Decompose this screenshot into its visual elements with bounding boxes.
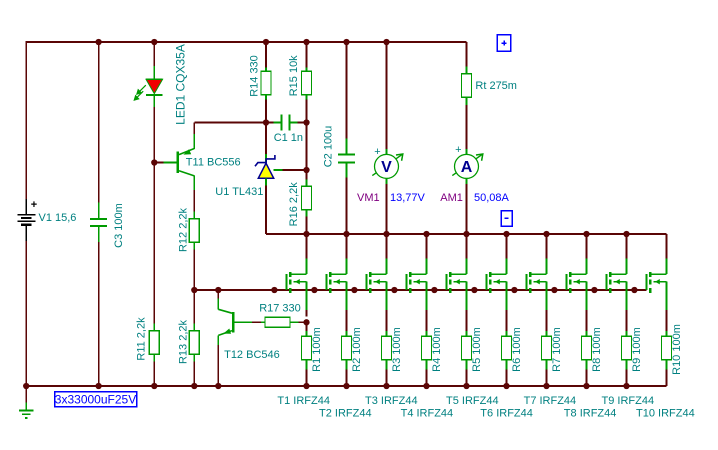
resistor R5 100m bbox=[462, 336, 472, 360]
resistor R14 330 bbox=[261, 71, 271, 95]
svg-text:+: + bbox=[31, 199, 37, 211]
label R12 2,2k bbox=[178, 207, 190, 252]
wire gate drive bus bbox=[194, 289, 646, 291]
node minus bus / T6 drain bbox=[503, 231, 509, 237]
wire T5 drain bbox=[466, 234, 468, 274]
wire R15 bottom bbox=[306, 95, 308, 123]
node gate bus dot 5 bbox=[431, 287, 437, 293]
wire R1 bottom bbox=[306, 361, 308, 387]
svg-text:R9 100m: R9 100m bbox=[631, 327, 643, 372]
node bottom rail / R8 bbox=[583, 383, 589, 389]
svg-text:V: V bbox=[381, 159, 392, 176]
wire U1 reference bbox=[274, 169, 307, 171]
transistor T4 IRFZ44 (MOSFET) bbox=[407, 272, 427, 293]
wire node mid rail (emitter to R14/C1) bbox=[194, 122, 266, 124]
node top rail / R14 bbox=[263, 39, 269, 45]
svg-text:R5 100m: R5 100m bbox=[471, 327, 483, 372]
wire AM1 bottom bbox=[466, 178, 468, 234]
wire T1 source node to R1 bbox=[306, 322, 308, 335]
node top rail / C3 bbox=[95, 39, 101, 45]
wire R16 bottom bbox=[306, 211, 308, 234]
svg-text:+: + bbox=[374, 146, 380, 158]
terminal - (negative output) bbox=[501, 211, 512, 227]
svg-text:R2 100m: R2 100m bbox=[351, 327, 363, 372]
svg-text:R6 100m: R6 100m bbox=[511, 327, 523, 372]
wire T12 base to R17 bbox=[235, 321, 266, 323]
resistor R11 2,2k bbox=[149, 331, 159, 355]
label T6 IRFZ44 bbox=[480, 408, 533, 420]
label 13,77V bbox=[390, 192, 426, 204]
label R11 2,2k bbox=[136, 317, 148, 361]
node bottom rail / R13 bbox=[191, 383, 197, 389]
wire T2 source bbox=[346, 282, 348, 336]
svg-text:T9 IRFZ44: T9 IRFZ44 bbox=[602, 395, 655, 407]
svg-text:R13 2,2k: R13 2,2k bbox=[178, 319, 190, 364]
wire C2 top bbox=[346, 42, 348, 155]
node minus bus / T7 drain bbox=[543, 231, 549, 237]
node gate bus dot 9 bbox=[591, 287, 597, 293]
label U1 TL431 bbox=[215, 186, 263, 198]
wire C3 bottom bbox=[98, 226, 100, 386]
svg-text:50,08A: 50,08A bbox=[474, 192, 510, 204]
node bottom rail / C3 bbox=[95, 383, 101, 389]
wire T3 drain bbox=[386, 234, 388, 274]
node minus bus / T9 drain bbox=[623, 231, 629, 237]
wire T1 source bbox=[306, 282, 308, 317]
wire R15 top bbox=[306, 42, 308, 72]
wire R5 bottom bbox=[466, 361, 468, 387]
capacitor C3 100m bbox=[90, 219, 107, 226]
svg-text:T4 IRFZ44: T4 IRFZ44 bbox=[401, 408, 454, 420]
wire R17 to T1 source node bbox=[290, 321, 307, 323]
node bottom rail / R10 bbox=[0, 0, 1, 1]
label R16 2,2k bbox=[288, 182, 300, 227]
label T12 BC546 bbox=[224, 349, 280, 361]
node bottom rail / R4 bbox=[423, 383, 429, 389]
wire T10 drain bbox=[666, 234, 668, 274]
wire T4 drain bbox=[426, 234, 428, 274]
node minus bus / T8 drain bbox=[583, 231, 589, 237]
node bottom rail / R6 bbox=[503, 383, 509, 389]
svg-text:T3 IRFZ44: T3 IRFZ44 bbox=[365, 395, 418, 407]
svg-text:T11 BC556: T11 BC556 bbox=[186, 157, 241, 169]
svg-text:3x33000uF25V: 3x33000uF25V bbox=[55, 392, 136, 406]
transistor T2 IRFZ44 (MOSFET) bbox=[327, 272, 347, 293]
label T3 IRFZ44 bbox=[365, 395, 418, 407]
label T8 IRFZ44 bbox=[564, 408, 617, 420]
svg-text:LED1 CQX35A: LED1 CQX35A bbox=[174, 44, 188, 125]
svg-text:R1 100m: R1 100m bbox=[311, 327, 323, 372]
wire LED anode bbox=[153, 42, 155, 79]
wire T12 emitter down bbox=[217, 335, 219, 386]
wire R14 top bbox=[265, 42, 267, 72]
wire R11 top bbox=[153, 163, 155, 331]
wire C3 top bbox=[98, 42, 100, 219]
terminal + (positive output) bbox=[497, 35, 511, 52]
transistor T10 IRFZ44 (MOSFET) bbox=[647, 272, 667, 293]
svg-text:R14 330: R14 330 bbox=[248, 55, 260, 97]
svg-text:R7 100m: R7 100m bbox=[551, 327, 563, 372]
svg-text:T10 IRFZ44: T10 IRFZ44 bbox=[636, 408, 695, 420]
node mid rail / R14 / C1-left / U1 bbox=[263, 119, 269, 125]
svg-text:C3 100m: C3 100m bbox=[113, 203, 125, 248]
wire T9 source bbox=[626, 282, 628, 336]
label R5 100m bbox=[471, 327, 483, 372]
node mid rail / C1-right / R15 bbox=[303, 119, 309, 125]
resistor R1 100m bbox=[302, 336, 312, 360]
label T2 IRFZ44 bbox=[319, 408, 372, 420]
transistor T8 IRFZ44 (MOSFET) bbox=[567, 272, 587, 293]
wire T10 source bbox=[666, 282, 668, 336]
node R17 / T1 source / R1 bbox=[303, 319, 309, 325]
label T5 IRFZ44 bbox=[446, 395, 499, 407]
wire minus bus (drain rail) bbox=[266, 233, 667, 235]
svg-text:R12 2,2k: R12 2,2k bbox=[178, 207, 190, 252]
label 50,08A bbox=[474, 192, 510, 204]
capacitor C1 1n bbox=[282, 115, 290, 131]
node gate bus / R12-R13 bbox=[191, 287, 197, 293]
wire R13 top bbox=[193, 290, 195, 330]
svg-text:R16 2,2k: R16 2,2k bbox=[288, 182, 300, 227]
node gate bus dot 8 bbox=[551, 287, 557, 293]
wire C1-right down to ref node bbox=[306, 123, 308, 171]
svg-text:U1 TL431: U1 TL431 bbox=[215, 186, 263, 198]
resistor R6 100m bbox=[502, 336, 512, 360]
svg-text:+: + bbox=[455, 144, 461, 156]
wire R6 bottom bbox=[506, 361, 508, 387]
wire R13 bottom bbox=[193, 355, 195, 386]
node bottom rail / battery bbox=[23, 383, 29, 389]
wire T11 base bbox=[154, 162, 177, 164]
node gate bus dot 3 bbox=[351, 287, 357, 293]
wire VM1 top bbox=[386, 42, 388, 154]
LED LED1 CQX35A bbox=[134, 79, 162, 100]
wire T12 collector bbox=[217, 290, 219, 309]
label T10 IRFZ44 bbox=[636, 408, 695, 420]
svg-text:R10 100m: R10 100m bbox=[671, 324, 683, 375]
svg-text:R3 100m: R3 100m bbox=[391, 327, 403, 372]
label Rt 275m bbox=[475, 80, 517, 92]
transistor T7 IRFZ44 (MOSFET) bbox=[527, 272, 547, 293]
capacitor C2 100u bbox=[338, 155, 355, 163]
node bottom rail / R9 bbox=[623, 383, 629, 389]
label LED1 CQX35A bbox=[174, 44, 188, 125]
node bottom rail / R5 bbox=[463, 383, 469, 389]
node minus bus / T4 drain bbox=[423, 231, 429, 237]
label T9 IRFZ44 bbox=[602, 395, 655, 407]
wire R3 bottom bbox=[386, 361, 388, 387]
resistor R4 100m bbox=[422, 336, 432, 360]
battery V1 15,6 bbox=[18, 199, 38, 241]
wire T7 drain bbox=[546, 234, 548, 274]
transistor T11 BC556 bbox=[178, 149, 195, 176]
node LED/R11/T11-base junction bbox=[151, 159, 157, 165]
node bottom rail / T12 emitter bbox=[215, 383, 221, 389]
wire T3 source bbox=[386, 282, 388, 336]
wire top rail to Rt bbox=[466, 42, 468, 73]
label C1 1n bbox=[274, 132, 303, 144]
node bottom rail / R7 bbox=[543, 383, 549, 389]
svg-text:C2 100u: C2 100u bbox=[323, 126, 335, 168]
svg-text:R17 330: R17 330 bbox=[259, 303, 301, 315]
wire R2 bottom bbox=[346, 361, 348, 387]
node gate bus dot 1 bbox=[271, 287, 277, 293]
wire T11 emitter up bbox=[193, 123, 195, 150]
transistor T6 IRFZ44 (MOSFET) bbox=[487, 272, 507, 293]
svg-text:T8 IRFZ44: T8 IRFZ44 bbox=[564, 408, 617, 420]
resistor R16 2,2k bbox=[302, 186, 312, 210]
node bottom rail / R1 bbox=[303, 383, 309, 389]
svg-text:T12 BC546: T12 BC546 bbox=[224, 349, 280, 361]
wire T7 source bbox=[546, 282, 548, 336]
label R2 100m bbox=[351, 327, 363, 372]
wire R14 bottom bbox=[265, 95, 267, 123]
wire bottom ground rail bbox=[26, 385, 666, 387]
wire battery positive lead bbox=[25, 41, 27, 199]
svg-text:T6 IRFZ44: T6 IRFZ44 bbox=[480, 408, 533, 420]
transistor T1 IRFZ44 (MOSFET) bbox=[287, 272, 307, 293]
wire T8 drain bbox=[586, 234, 588, 274]
svg-text:AM1: AM1 bbox=[440, 192, 463, 204]
resistor R15 10k bbox=[302, 71, 312, 95]
label 3x33000uF25V (battery note) bbox=[55, 392, 137, 407]
node gate bus dot 6 bbox=[471, 287, 477, 293]
label R6 100m bbox=[511, 327, 523, 372]
label R8 100m bbox=[591, 327, 603, 372]
node minus bus / T5 drain bbox=[463, 231, 469, 237]
wire Rt to AM1 bbox=[466, 98, 468, 154]
resistor R8 100m bbox=[582, 336, 592, 360]
label T7 IRFZ44 bbox=[524, 395, 577, 407]
transistor T3 IRFZ44 (MOSFET) bbox=[367, 272, 387, 293]
svg-text:R11 2,2k: R11 2,2k bbox=[136, 317, 148, 361]
node bottom rail / R2 bbox=[343, 383, 349, 389]
ammeter AM1 bbox=[452, 144, 483, 179]
wire top positive rail bbox=[26, 41, 466, 43]
label AM1 bbox=[440, 192, 463, 204]
transistor T5 IRFZ44 (MOSFET) bbox=[447, 272, 467, 293]
resistor R9 100m bbox=[622, 336, 632, 360]
wire T5 source bbox=[466, 282, 468, 336]
wire T11 collector down bbox=[193, 176, 195, 218]
svg-text:VM1: VM1 bbox=[357, 192, 380, 204]
label T4 IRFZ44 bbox=[401, 408, 454, 420]
label R7 100m bbox=[551, 327, 563, 372]
node top rail / C2 bbox=[343, 39, 349, 45]
wire R10 bottom bbox=[666, 361, 668, 387]
wire T9 drain bbox=[626, 234, 628, 274]
node minus bus / T2 drain bbox=[343, 231, 349, 237]
wire T1 drain bbox=[306, 234, 308, 274]
label C2 100u bbox=[323, 126, 335, 168]
label R9 100m bbox=[631, 327, 643, 372]
wire LED cathode to node bbox=[153, 95, 155, 163]
node gate bus dot 2 bbox=[311, 287, 317, 293]
resistor R2 100m bbox=[342, 336, 352, 360]
node minus bus / T3 drain bbox=[383, 231, 389, 237]
node top rail / LED bbox=[151, 39, 157, 45]
node minus bus / T1 drain bbox=[303, 231, 309, 237]
label R17 330 bbox=[259, 303, 301, 315]
wire T2 drain bbox=[346, 234, 348, 274]
svg-text:13,77V: 13,77V bbox=[390, 192, 426, 204]
resistor R12 2,2k bbox=[189, 219, 199, 243]
node gate bus dot 7 bbox=[511, 287, 517, 293]
label R1 100m bbox=[311, 327, 323, 372]
resistor R7 100m bbox=[542, 336, 552, 360]
wire C2 bottom bbox=[346, 162, 348, 234]
svg-text:T2 IRFZ44: T2 IRFZ44 bbox=[319, 408, 372, 420]
voltmeter VM1 bbox=[372, 146, 403, 179]
node top rail / VM1 bbox=[383, 39, 389, 45]
label R4 100m bbox=[431, 327, 443, 372]
op-amp U1 TL431 shunt regulator bbox=[255, 155, 275, 178]
wire T6 source bbox=[506, 282, 508, 336]
wire C1 right lead bbox=[289, 122, 306, 124]
resistor R3 100m bbox=[382, 336, 392, 360]
transistor T9 IRFZ44 (MOSFET) bbox=[607, 272, 627, 293]
resistor R13 2,2k bbox=[189, 331, 199, 355]
wire C1 left lead bbox=[266, 122, 282, 124]
node bottom rail / R11 bbox=[151, 383, 157, 389]
svg-text:C1 1n: C1 1n bbox=[274, 132, 303, 144]
node top rail / R15 bbox=[303, 39, 309, 45]
svg-text:Rt 275m: Rt 275m bbox=[475, 80, 517, 92]
label T1 IRFZ44 bbox=[277, 395, 330, 407]
svg-text:V1 15,6: V1 15,6 bbox=[39, 212, 77, 224]
label V1 15,6 bbox=[39, 212, 77, 224]
ground bbox=[19, 386, 34, 418]
node U1 ref / R16 bbox=[303, 167, 309, 173]
node gate bus / T12 collector bbox=[215, 287, 221, 293]
resistor Rt 275m bbox=[462, 74, 472, 98]
wire R7 bottom bbox=[546, 361, 548, 387]
wire T6 drain bbox=[506, 234, 508, 274]
wire R4 bottom bbox=[426, 361, 428, 387]
wire R11 bottom bbox=[153, 355, 155, 386]
label T11 BC556 bbox=[186, 157, 241, 169]
wire R16 top bbox=[306, 170, 308, 186]
svg-text:T1 IRFZ44: T1 IRFZ44 bbox=[277, 395, 330, 407]
label R15 10k bbox=[288, 55, 300, 96]
wire VM1 bottom bbox=[386, 178, 388, 234]
wire R8 bottom bbox=[586, 361, 588, 387]
wire R12 bottom to gate bus bbox=[193, 243, 195, 290]
wire T4 source bbox=[426, 282, 428, 336]
wire R9 bottom bbox=[626, 361, 628, 387]
svg-text:T7 IRFZ44: T7 IRFZ44 bbox=[524, 395, 577, 407]
node gate bus dot 10 bbox=[631, 287, 637, 293]
svg-text:T5 IRFZ44: T5 IRFZ44 bbox=[446, 395, 499, 407]
resistor R17 330 bbox=[265, 317, 290, 327]
node gate bus dot 4 bbox=[391, 287, 397, 293]
transistor T12 BC546 bbox=[218, 309, 233, 335]
svg-text:R4 100m: R4 100m bbox=[431, 327, 443, 372]
label R13 2,2k bbox=[178, 319, 190, 364]
wire T8 source bbox=[586, 282, 588, 336]
wire U1 anode to minus bus bbox=[265, 178, 267, 234]
node bottom rail / R3 bbox=[383, 383, 389, 389]
label R3 100m bbox=[391, 327, 403, 372]
label C3 100m bbox=[113, 203, 125, 248]
wire battery negative lead bbox=[25, 241, 27, 386]
label VM1 bbox=[357, 192, 380, 204]
svg-text:A: A bbox=[461, 159, 473, 176]
label R10 100m bbox=[671, 324, 683, 375]
svg-text:R15 10k: R15 10k bbox=[288, 55, 300, 96]
svg-text:R8 100m: R8 100m bbox=[591, 327, 603, 372]
label R14 330 bbox=[248, 55, 260, 97]
wire U1 cathode bbox=[265, 123, 267, 163]
resistor R10 100m bbox=[662, 336, 672, 360]
